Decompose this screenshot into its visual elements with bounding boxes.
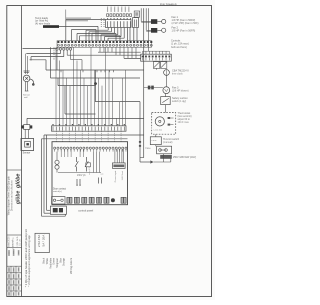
svg-text:aux: aux [100, 174, 103, 176]
wire long bus at y118 [27, 117, 144, 119]
svg-text:(1/8 HP blower): (1/8 HP blower) [172, 89, 189, 92]
svg-text:Wiring colors: Wiring colors [69, 257, 73, 274]
svg-text:spa-pak: spa-pak [12, 239, 14, 248]
control unit connector strip J1 [52, 126, 127, 131]
terminal strip TB2 right [141, 54, 172, 61]
connector CN2 body [133, 18, 139, 28]
wires from connector CN1 to terminal strip [107, 28, 109, 31]
revision cells text [8, 250, 10, 256]
svg-text:Orange: Orange [63, 257, 66, 266]
shielded cable thick bar [43, 25, 59, 28]
fan 1 plug [151, 19, 157, 24]
connector CN1 body [106, 20, 132, 28]
control unit terminal circles [54, 147, 56, 149]
control panel terminal blocks [67, 197, 70, 203]
terminal circles row [56, 48, 58, 50]
svg-text:glöbe: glöbe [16, 174, 22, 189]
wiring colors legend entries [43, 257, 46, 264]
pressure switch [21, 139, 34, 151]
wire feed drop to TB2 [147, 8, 149, 51]
wire top bus A [66, 18, 106, 20]
svg-text:ser. 20: ser. 20 [19, 238, 22, 245]
rotated text power input [114, 170, 117, 182]
auxiliary blocks under TB2 [153, 62, 159, 69]
svg-text:Door contact: Door contact [53, 188, 66, 191]
wire right drops from strip 2 [115, 47, 117, 55]
safety suction switch [161, 97, 171, 105]
terminal strip TB1 [57, 41, 152, 48]
wires into transformer [114, 149, 116, 163]
fan 1 motor M1 [162, 19, 166, 23]
svg-text:Wiring diagram Series 2000 Sp: Wiring diagram Series 2000 Spa-pak [8, 175, 11, 215]
wires up from TB2 [142, 51, 144, 54]
svg-text:Dimensions and specifications: Dimensions and specifications [11, 179, 14, 211]
thermostat assembly dashed box [152, 113, 176, 135]
title block cell text [7, 236, 10, 248]
svg-text:* 2 Cable equipment appliance: * 2 Cable equipment appliance wiring app [27, 235, 31, 287]
inline connector on feed wire [139, 141, 141, 143]
fan 2 plug [151, 28, 157, 33]
wire fan3 to safety switch [165, 94, 167, 97]
wire to fan 1 [141, 21, 151, 23]
thermostat contacts [168, 117, 171, 119]
relay contact S2 [86, 157, 88, 162]
fuse block F1 [157, 146, 172, 154]
wire drops from strip to mid buses [45, 60, 47, 70]
wire to left edge at terminal circles [23, 48, 58, 50]
wire feed drop to fan 1 [140, 8, 142, 21]
time clock CBA [164, 70, 170, 76]
footnote rotated text lines [24, 229, 28, 287]
wire bus above control unit 1 [44, 134, 144, 136]
svg-text:switch(s): switch(s) [53, 190, 62, 193]
wire stubs from mid bus [60, 70, 62, 72]
svg-text:bulb and fans): bulb and fans) [171, 46, 187, 49]
svg-text:(4) wire leads: (4) wire leads [35, 22, 51, 25]
svg-text:240V feed: 240V feed [122, 170, 124, 180]
relay contact S1 [76, 157, 78, 162]
indicator dot [111, 199, 114, 202]
wire left bus 3 [30, 59, 47, 61]
control unit enclosure [52, 142, 128, 205]
wires from terminal strip down to control unit connector [55, 47, 57, 126]
wire safety to thermostat [165, 105, 167, 113]
wiring colors legend title [69, 257, 73, 274]
jumper pins JP2 [98, 178, 100, 184]
jumper pins JP1 [76, 179, 78, 184]
fuse rating note box [35, 233, 49, 252]
wire bus at y114 [65, 113, 96, 115]
wire main feed vertical right [143, 8, 145, 157]
wire from junction down [95, 70, 97, 102]
connector CN1 pin name labels [107, 7, 108, 13]
svg-text:glöbe: glöbe [16, 191, 22, 206]
wire mid bus at y78 [51, 77, 141, 79]
temp sensor probe [24, 70, 30, 72]
fuse label [160, 155, 172, 159]
wire mid bus at y85 [58, 85, 96, 87]
wire top bus B [72, 29, 97, 31]
wire vertical right mid [139, 102, 141, 162]
wire hi-limit to fuse [155, 145, 157, 147]
wire bus above control unit 3 [46, 135, 48, 210]
svg-text:230V ph: 230V ph [77, 175, 86, 177]
component small box inside [86, 163, 91, 167]
svg-text:5A * 20A: 5A * 20A [42, 235, 46, 247]
plug connector [26, 118, 28, 124]
svg-text:control panel: control panel [78, 208, 93, 212]
svg-text:(manual): (manual) [163, 141, 173, 144]
wire right drops from strip 1 [99, 47, 101, 52]
junction node [94, 82, 96, 84]
wire stubs from terminal circles [60, 149, 62, 157]
connector CN1 terminal squares [107, 14, 109, 17]
fan 2 motor M2 [162, 28, 166, 32]
wire feed tee to fan 3 [144, 87, 163, 89]
internal wires [93, 152, 95, 173]
svg-text:Type SPK: Type SPK [17, 236, 19, 247]
wire dashed leads into CN1 [100, 18, 102, 28]
svg-text:t-stat dial: t-stat dial [154, 129, 163, 132]
wire bus above control unit 2 [42, 138, 128, 140]
wire left bus 2 [31, 56, 64, 58]
connector CN3 small box [134, 11, 139, 17]
svg-text:Fuse: Fuse [146, 148, 152, 150]
connector J1 terminal dots [52, 124, 53, 125]
svg-text:P/N 38448-B: P/N 38448-B [160, 2, 177, 6]
wire thermostat to hi-limit [155, 134, 157, 137]
svg-text:switch (1 qty): switch (1 qty) [172, 100, 186, 103]
wire feed drop to fan 2 [145, 8, 147, 30]
dotted note text above wires [66, 17, 91, 19]
svg-text:250V 3AB 6kW (20A'): 250V 3AB 6kW (20A') [173, 156, 196, 159]
svg-text:relay K1: relay K1 [88, 166, 91, 174]
wire clock to fan3 [165, 75, 167, 86]
manufacturer logo rotated [16, 174, 22, 189]
wire to fan 2 [146, 29, 151, 31]
wires J1 to control unit [55, 131, 57, 142]
svg-text:2.5A 15A: 2.5A 15A [37, 235, 41, 247]
svg-text:time clock: time clock [172, 72, 183, 75]
wires CN2 down [126, 28, 128, 42]
wire from shielded cable to terminal strip [59, 25, 98, 27]
hi-limit switch [150, 137, 161, 145]
plug twin leads [24, 129, 26, 138]
svg-text:Serial 2000: Serial 2000 [7, 236, 10, 248]
relay coil K1 [55, 160, 59, 164]
wire left bus 1 [26, 53, 60, 55]
svg-text:Power input: Power input [114, 170, 117, 182]
wire top bus C [77, 33, 116, 35]
fan 3 motor M3 [163, 87, 170, 94]
svg-text:1/3 HP (Fan in 56FR): 1/3 HP (Fan in 56FR) [172, 30, 196, 33]
transformer T1 [113, 163, 126, 169]
connector block below enclosure [50, 206, 66, 214]
door contact switch box [52, 197, 65, 204]
wire to heater fuse [140, 161, 150, 163]
svg-text:well: well [24, 97, 28, 99]
thermostat dial [155, 117, 164, 126]
title block [7, 169, 22, 171]
wire right drops from strip 3 [123, 47, 125, 58]
wire top bus D [80, 35, 121, 37]
wire mid bus at y70 [46, 69, 144, 71]
svg-text:HL-2: HL-2 [152, 140, 158, 142]
svg-text:Sensor: Sensor [23, 152, 31, 155]
svg-text:(2 SP 1HP) (Fan in 56fr): (2 SP 1HP) (Fan in 56fr) [172, 22, 199, 25]
title block rotated text [8, 175, 11, 215]
svg-text:104 F max: 104 F max [178, 121, 190, 124]
connector CN1 pin dots [107, 18, 108, 19]
